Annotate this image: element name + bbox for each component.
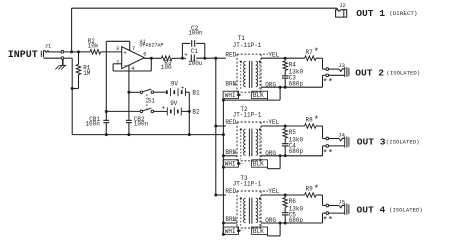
svg-text:WHI: WHI — [225, 161, 236, 168]
node shield tie / ORG T1 — [279, 86, 282, 89]
svg-text:BLK: BLK — [253, 92, 264, 99]
svg-text:OUT 2: OUT 2 — [355, 67, 384, 78]
node secondary low T2 — [284, 154, 287, 157]
jack J1 sleeve wire — [43, 57, 61, 59]
wire J1 tip to node — [48, 51, 61, 53]
wire sleeve to plug J3 — [329, 74, 345, 76]
svg-text:RED: RED — [225, 51, 236, 58]
transformer T3 BRN lead — [223, 222, 237, 224]
node secondary hot T3 — [284, 194, 287, 197]
jack J4 tip contact — [326, 137, 329, 140]
transformer T2 secondary winding — [256, 129, 258, 155]
wire pin4 to V- bus — [128, 65, 130, 92]
jack J1 tip hook — [44, 51, 49, 53]
wire BLK/shield tie T3 — [267, 234, 269, 236]
transformer T3 core — [248, 198, 250, 224]
svg-text:+: + — [162, 104, 166, 111]
wire tip to plug J4 — [329, 138, 339, 140]
jack J2 plug — [336, 10, 347, 17]
svg-text:2: 2 — [116, 59, 119, 66]
capacitor C4 — [284, 138, 286, 143]
transformer T3 dashed box — [237, 190, 268, 192]
svg-text:*: * — [314, 184, 319, 194]
wire V+ left vertical — [105, 41, 107, 111]
svg-text:**: ** — [322, 78, 333, 88]
switch S1 pole A — [140, 91, 143, 94]
resistor R6 — [284, 195, 286, 198]
svg-text:S1: S1 — [148, 98, 156, 105]
node secondary hot T2 — [284, 125, 287, 128]
node R1/ground rail — [71, 87, 74, 90]
resistor R9 — [305, 193, 316, 198]
svg-text:C1: C1 — [191, 48, 199, 55]
jack J3 sleeve contact — [326, 74, 329, 77]
svg-text:*: * — [314, 47, 319, 57]
label box BLK T2 — [252, 160, 268, 167]
jack J1 plug — [40, 51, 42, 57]
node secondary low T3 — [284, 222, 287, 225]
jack J4 plug — [344, 137, 346, 148]
wire R3 to C1 — [172, 57, 186, 59]
svg-text:6: 6 — [143, 51, 146, 58]
transformer T3 phase dots — [240, 197, 242, 199]
resistor R2 — [90, 50, 101, 55]
wire BLK/shield tie T2 — [267, 167, 269, 169]
node B2 mid rail — [188, 110, 191, 113]
node V+ junction — [105, 110, 108, 113]
wire direct-out vertical — [71, 8, 73, 52]
svg-text:(ISOLATED): (ISOLATED) — [386, 139, 420, 146]
label box WHI T2 — [223, 160, 238, 167]
svg-text:BRN: BRN — [225, 216, 236, 223]
svg-text:680p: 680p — [289, 80, 304, 87]
svg-text:OPA627AP: OPA627AP — [140, 43, 164, 49]
label box BLK T3 — [252, 227, 268, 234]
transformer T1 lead dashes — [240, 64, 242, 90]
wire sleeve to plug J4 — [329, 145, 345, 147]
wire input node — [64, 51, 90, 53]
ground symbol — [62, 59, 64, 65]
svg-text:T1: T1 — [238, 35, 246, 42]
transformer T3 secondary winding — [256, 198, 258, 222]
svg-text:+: + — [123, 50, 127, 57]
node C2 right leg — [203, 57, 206, 60]
svg-text:YEL: YEL — [268, 188, 279, 195]
transformer T2 RED lead — [216, 125, 226, 127]
jack J1 tip contact — [61, 50, 64, 53]
jack J5 plug — [344, 204, 346, 215]
svg-text:680p: 680p — [289, 217, 304, 224]
transformer T3 primary winding — [244, 198, 246, 222]
label box WHI T3 — [223, 227, 238, 234]
transformer T1 RED lead — [216, 57, 226, 59]
jack J4 sleeve contact — [326, 145, 329, 148]
label box WHI T1 — [223, 91, 238, 98]
wire R1 bottom jog — [72, 88, 78, 90]
svg-text:9V: 9V — [171, 81, 179, 88]
wire V- to switch — [129, 91, 140, 93]
svg-text:100u: 100u — [188, 60, 203, 67]
svg-text:*: * — [314, 115, 319, 125]
node WHI lead T3 — [237, 229, 240, 232]
transformer T1 core — [248, 61, 250, 88]
svg-text:BRN: BRN — [225, 80, 236, 87]
svg-text:J2: J2 — [339, 2, 346, 9]
svg-text:R9: R9 — [306, 186, 314, 193]
svg-text:7: 7 — [132, 45, 135, 52]
jack J5 tip contact — [326, 204, 329, 207]
node WHI lead T2 — [237, 162, 240, 165]
wire C1 to signal bus — [196, 57, 216, 59]
resistor R5 — [284, 126, 286, 129]
wire inverting input — [113, 63, 122, 65]
node signal bus T2 — [214, 125, 217, 128]
transformer T2 phase dots — [240, 128, 242, 130]
svg-text:(DIRECT): (DIRECT) — [389, 10, 417, 17]
svg-text:YEL: YEL — [268, 119, 279, 126]
svg-text:1M: 1M — [83, 70, 91, 77]
svg-text:9V: 9V — [170, 100, 178, 107]
transformer T3 lead dashes — [240, 201, 242, 226]
node output/feedback — [150, 57, 153, 60]
svg-text:JT-11P-1: JT-11P-1 — [233, 42, 262, 49]
wire R7 to jack tip — [316, 57, 323, 59]
svg-text:B2: B2 — [192, 109, 200, 116]
wire BLK/shield tie T1 — [223, 99, 280, 101]
wire tip to plug J5 — [329, 205, 339, 207]
transformer T2 primary winding — [244, 129, 246, 155]
node shield tie / ORG T3 — [279, 222, 282, 225]
svg-text:BRN: BRN — [225, 149, 236, 156]
wire signal bus vertical — [215, 58, 217, 195]
wire sleeve to plug J5 — [329, 212, 345, 214]
svg-text:10k: 10k — [88, 43, 99, 50]
node signal bus top — [214, 57, 217, 60]
svg-text:RED: RED — [225, 119, 236, 126]
svg-text:BLK: BLK — [253, 228, 264, 235]
resistor R8 — [305, 124, 316, 129]
node secondary hot T1 — [284, 57, 287, 60]
resistor R3 — [161, 56, 172, 61]
transformer T1 primary winding — [244, 61, 246, 86]
node input/R1 junction — [77, 50, 80, 53]
jack J2 tip hook — [337, 8, 341, 11]
svg-text:OUT 4: OUT 4 — [357, 204, 386, 215]
node signal bus T3 — [214, 194, 217, 197]
battery B2 — [154, 110, 168, 112]
svg-text:JT-11P-1: JT-11P-1 — [233, 181, 262, 188]
wire R2 to op-amp — [101, 51, 122, 53]
svg-text:WHI: WHI — [225, 92, 236, 99]
svg-text:J1: J1 — [45, 42, 52, 49]
capacitor C3 — [284, 70, 286, 75]
svg-text:+: + — [184, 52, 188, 59]
capacitor C5 — [284, 207, 286, 212]
transformer T2 core — [248, 129, 250, 157]
transformer T1 secondary winding — [256, 61, 258, 86]
transformer T2 BRN lead — [223, 155, 237, 157]
svg-text:RED: RED — [225, 188, 236, 195]
wire pin7 to V+ box — [129, 41, 131, 50]
svg-text:R5: R5 — [289, 129, 297, 136]
node C2 left leg — [181, 57, 184, 60]
node input/direct junction — [70, 50, 73, 53]
transformer T1 phase dots — [240, 61, 242, 63]
node secondary low T1 — [284, 86, 287, 89]
switch S1 pole B — [140, 110, 143, 113]
svg-text:**: ** — [322, 216, 333, 226]
svg-text:BLK: BLK — [253, 161, 264, 168]
svg-text:+: + — [181, 85, 185, 92]
wire ground rail vertical — [71, 58, 73, 134]
jack J3 plug — [344, 67, 346, 77]
wire ground bottom rail — [72, 134, 223, 136]
op-amp U1 triangle — [122, 47, 145, 69]
node CB1 ground — [105, 133, 108, 136]
svg-text:B1: B1 — [192, 89, 200, 96]
svg-text:100n: 100n — [188, 29, 203, 36]
node WHI lead T1 — [237, 93, 240, 96]
wire tip to plug J3 — [329, 68, 339, 70]
wire R9 to jack tip — [316, 194, 323, 196]
svg-text:R7: R7 — [306, 49, 314, 56]
wire R8 to jack tip — [316, 125, 323, 127]
svg-text:WHI: WHI — [225, 228, 236, 235]
svg-text:3: 3 — [116, 45, 119, 52]
svg-text:INPUT: INPUT — [8, 50, 38, 61]
svg-text:R8: R8 — [306, 117, 314, 124]
wire op-amp output — [144, 57, 161, 59]
svg-text:R6: R6 — [289, 198, 297, 205]
svg-text:100n: 100n — [134, 120, 149, 127]
svg-text:(ISOLATED): (ISOLATED) — [387, 70, 421, 77]
wire V+ to switch — [106, 110, 140, 112]
svg-text:(ISOLATED): (ISOLATED) — [389, 207, 423, 214]
svg-text:J5: J5 — [338, 199, 345, 206]
capacitor C2 — [181, 43, 183, 58]
wire sleeve return J4 — [323, 145, 327, 147]
wire B1 to mid rail — [188, 92, 190, 134]
svg-text:J3: J3 — [338, 62, 345, 69]
svg-text:680p: 680p — [289, 148, 304, 155]
wire V+ top — [106, 40, 129, 42]
jack J3 tip contact — [326, 68, 329, 71]
node V- switch junction — [127, 91, 130, 94]
svg-text:**: ** — [322, 148, 333, 158]
battery B1 — [154, 91, 167, 93]
capacitor CB1 — [105, 112, 107, 120]
transformer T3 RED lead — [216, 194, 226, 196]
resistor R7 — [305, 56, 316, 61]
node ground bus / bottom rail — [222, 133, 225, 136]
transformer T2 dashed box — [237, 121, 268, 123]
transformer T2 lead dashes — [240, 132, 242, 159]
node shield tie / ORG T2 — [279, 154, 282, 157]
jack J5 sleeve contact — [326, 212, 329, 215]
switch S1 link — [146, 95, 148, 109]
svg-text:OUT 3: OUT 3 — [357, 136, 386, 147]
resistor R4 — [284, 58, 286, 61]
wire sleeve return J3 — [323, 74, 327, 76]
jack J1 sleeve contact — [61, 57, 64, 60]
capacitor CB2 — [128, 92, 130, 120]
node CB2 ground — [127, 133, 130, 136]
svg-text:JT-11P-1: JT-11P-1 — [233, 112, 262, 119]
svg-text:100n: 100n — [85, 120, 100, 127]
svg-text:-: - — [123, 62, 127, 70]
wire ground bus vertical — [222, 100, 224, 235]
wire sleeve return J5 — [323, 212, 327, 214]
wire feedback loop — [112, 64, 114, 71]
resistor R1 — [78, 52, 80, 65]
node signal bus T1 — [214, 57, 217, 60]
svg-text:100: 100 — [161, 64, 172, 71]
node battery mid ground — [188, 133, 191, 136]
transformer T1 dashed box — [237, 53, 268, 55]
wire top rail to OUT1 — [72, 7, 337, 9]
svg-text:YEL: YEL — [268, 51, 279, 58]
svg-text:R4: R4 — [289, 61, 297, 68]
label box BLK T1 — [252, 91, 268, 98]
wire sleeve to ground rail — [64, 57, 72, 59]
svg-text:OUT 1: OUT 1 — [356, 8, 385, 19]
